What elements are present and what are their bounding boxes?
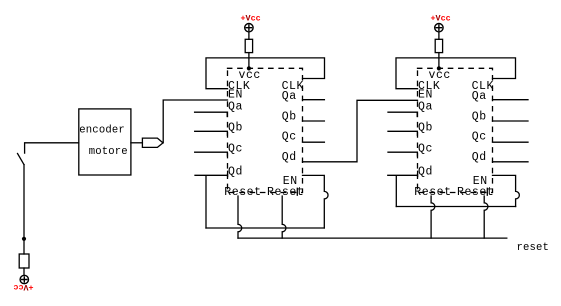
svg-text:Qd: Qd [418,166,433,179]
switch S1 [25,143,79,153]
IC2 right pin wires Qa-Qd [493,99,529,101]
svg-text:Reset: Reset [267,186,304,199]
cascade wire Qd1 to EN2 [303,100,418,162]
svg-text:Reset: Reset [457,186,494,199]
wire R1 to power [248,32,250,39]
tick after Reset right IC2 [486,188,488,195]
wire flag to IC1 EN [163,100,227,143]
svg-text:Qd: Qd [472,151,487,164]
IC1 reset wire left with hop [238,196,242,238]
svg-text:Reset: Reset [224,186,261,199]
svg-text:Qa: Qa [282,90,297,103]
svg-text:+Vcc: +Vcc [13,282,33,292]
svg-text:Qc: Qc [282,131,297,144]
svg-text:Reset: Reset [414,186,451,199]
wire Qd2 + tee down [388,171,418,206]
power symbol +Vcc (inverted) [20,275,28,283]
svg-text:+Vcc: +Vcc [241,14,261,24]
svg-text:Qb: Qb [282,111,297,124]
wire Qd1 + tee down [195,171,228,228]
svg-text:+Vcc: +Vcc [431,14,451,24]
svg-text:Qa: Qa [472,90,487,103]
svg-text:Qb: Qb [228,122,243,135]
svg-text:Qc: Qc [228,143,243,156]
svg-text:Qc: Qc [472,131,487,144]
IC1 right EN wire with hop [303,175,329,228]
wire R3 to power [23,268,25,275]
wire Qb1 [195,131,228,135]
IC2 power: wire up [438,53,440,69]
svg-text:Qd: Qd [282,151,297,164]
power symbol +Vcc IC1 [245,24,253,32]
CLK loop wire IC1 [206,58,325,89]
resistor R1 [245,39,252,52]
IC2 dashed box [418,68,493,192]
junction dot vcc IC2 [437,66,441,70]
IC2 reset wire left with hop [431,196,435,238]
wire Qa1 [195,112,228,116]
svg-text:EN: EN [228,89,243,102]
CLK loop wire IC2 [396,58,516,89]
wire Qb2 [388,131,417,135]
wire Qc2 [388,152,417,156]
IC2 right EN wire with hop [493,175,520,206]
svg-text:Qa: Qa [228,101,243,114]
svg-text:EN: EN [418,89,433,102]
wire Qa2 [388,112,417,116]
wire R2 to power [438,32,440,39]
svg-text:reset: reset [517,242,550,254]
resistor R3 [19,254,29,268]
junction dot (left wire) [22,237,26,241]
IC2 reset wire right with hop [484,196,488,238]
IC1 power: wire up [248,53,250,69]
bus A2 IC2 [396,206,515,208]
svg-text:encoder: encoder [79,124,125,136]
svg-text:motore: motore [89,146,128,158]
wire Qc1 [195,152,228,156]
svg-text:Qb: Qb [418,122,433,135]
IC1 right pin wires Qa-Qc [303,99,325,101]
power symbol +Vcc IC2 [435,24,443,32]
resistor R2 [435,39,442,52]
bus A IC1 [206,227,324,229]
svg-text:Qc: Qc [418,143,433,156]
junction dot vcc IC1 [247,66,251,70]
IC1 reset wire right with hop [282,196,286,238]
encoder box [79,109,131,175]
svg-text:Qb: Qb [472,111,487,124]
wire encoder to flag [131,142,143,144]
net flag (pentagon) [142,138,163,147]
reset bus B [238,237,507,239]
svg-text:Qa: Qa [418,101,433,114]
IC1 dashed box [228,68,303,192]
tick after Reset right IC1 [296,188,298,195]
svg-text:Qd: Qd [228,166,243,179]
wire switch to R3 [23,165,25,254]
